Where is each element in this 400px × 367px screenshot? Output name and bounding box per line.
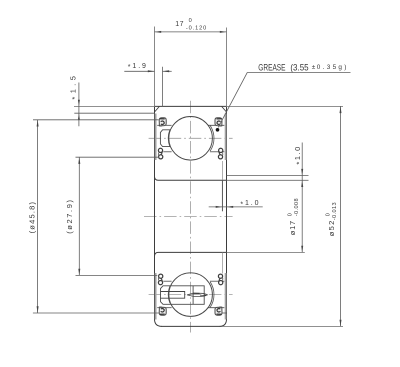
rivet dark edges bbox=[193, 292, 200, 294]
ball bottom bbox=[169, 273, 213, 317]
right face line (with 17-dim extension above) bbox=[226, 28, 228, 107]
svg-text:0: 0 bbox=[189, 18, 192, 24]
svg-text:0: 0 bbox=[288, 213, 294, 216]
svg-text:*1.0: *1.0 bbox=[293, 145, 303, 164]
vertical centerline bbox=[190, 101, 192, 333]
(phi45.8) dimension bbox=[33, 119, 159, 121]
top-right chamfer bbox=[222, 107, 227, 113]
outer ring OD top surface (also extension line both sides) bbox=[74, 105, 155, 107]
cage bar profile (hexagon), top block bbox=[160, 130, 170, 147]
recess line right (inner ring face recess) bbox=[221, 180, 223, 211]
svg-text:ø52: ø52 bbox=[327, 219, 336, 236]
seal groove land line bottom right bbox=[222, 312, 227, 314]
cage pocket outline bottom block bbox=[161, 286, 205, 305]
*1.5 dimension bbox=[74, 112, 154, 114]
horizontal centerline bottom block bbox=[149, 294, 233, 296]
svg-text:0.35g): 0.35g) bbox=[317, 64, 349, 71]
*1.0 horizontal dimension (right face recess) bbox=[209, 206, 263, 208]
shoulders bbox=[157, 125, 224, 152]
svg-text:17: 17 bbox=[175, 21, 183, 28]
bottom-left round corner bbox=[155, 319, 162, 326]
(phi27.9) dimension bbox=[76, 156, 159, 158]
svg-text:ø17: ø17 bbox=[288, 220, 297, 235]
axis centerline bbox=[144, 216, 233, 218]
rivet lens outline bbox=[187, 293, 207, 296]
grease dot bbox=[216, 128, 220, 132]
svg-text:-0.008: -0.008 bbox=[294, 198, 300, 216]
seals bbox=[156, 114, 167, 161]
17 0/-0.120 dimension bbox=[155, 31, 227, 33]
svg-text:*1.5: *1.5 bbox=[68, 73, 78, 100]
outer ring OD bottom surface + phi52 extension right bbox=[161, 325, 220, 327]
groove arcs top bbox=[168, 130, 170, 147]
svg-text:0: 0 bbox=[326, 213, 332, 216]
phi52 dimension bbox=[340, 106, 342, 326]
svg-text:±: ± bbox=[312, 64, 316, 71]
*1.9 dimension bbox=[124, 70, 154, 72]
GREASE callout bbox=[247, 71, 350, 73]
*1.0 vertical + phi17 dimension bbox=[227, 175, 309, 177]
horizontal centerline top block bbox=[149, 137, 233, 139]
groove arcs bottom bbox=[168, 286, 170, 303]
svg-text:(3.55: (3.55 bbox=[290, 62, 308, 72]
svg-text:(ø45.8): (ø45.8) bbox=[28, 201, 37, 234]
bore bottom line + ext right bbox=[155, 252, 227, 256]
top-left chamfer bbox=[155, 107, 160, 113]
svg-text:-0.120: -0.120 bbox=[186, 26, 207, 32]
cage divider bbox=[192, 286, 194, 305]
bottom-right round corner bbox=[220, 319, 227, 326]
bore top line (inner ring of top block) + phi17 ext right bbox=[155, 177, 227, 181]
svg-text:(ø27.9): (ø27.9) bbox=[65, 198, 74, 233]
left face line (with 17-dim extension above) bbox=[154, 27, 156, 107]
cage inner slot bbox=[161, 292, 185, 299]
svg-text:GREASE: GREASE bbox=[258, 62, 285, 72]
ball top bbox=[169, 117, 213, 161]
svg-text:-0.013: -0.013 bbox=[332, 202, 338, 220]
